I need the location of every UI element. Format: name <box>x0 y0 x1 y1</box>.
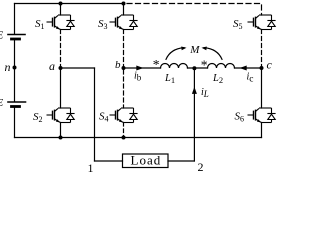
svg-text:1: 1 <box>88 161 94 175</box>
svg-text:iL: iL <box>201 87 209 99</box>
svg-text:S4: S4 <box>99 111 109 124</box>
svg-text:S1: S1 <box>35 18 45 31</box>
svg-text:S6: S6 <box>235 111 245 124</box>
svg-text:M: M <box>189 44 200 56</box>
op switch S5 <box>248 15 276 30</box>
junction dot top rail S3 <box>122 2 126 6</box>
arrow M right <box>202 47 207 51</box>
junction dot S2 bottom rail <box>59 136 63 140</box>
wire battery E1 to battery E2 <box>14 41 16 102</box>
node n dot <box>13 66 17 70</box>
svg-text:Load: Load <box>131 152 162 167</box>
battery E1 short plate <box>12 38 20 41</box>
svg-text:S3: S3 <box>98 18 108 31</box>
wire S4 emitter to bottom rail (dashed) <box>123 123 125 138</box>
svg-text:2: 2 <box>198 160 204 174</box>
wire S2 emitter to bottom rail <box>60 123 62 138</box>
wire S1 emitter to node a (dashed) <box>60 30 62 67</box>
mutual coupling arc right <box>204 48 222 60</box>
svg-text:b: b <box>115 59 121 71</box>
battery E2 short plate <box>12 105 20 108</box>
wire L1 to L2 through junction <box>188 67 208 69</box>
load box <box>123 154 169 168</box>
wire node c to S6 collector <box>261 68 263 108</box>
arrow M left <box>181 47 186 51</box>
op switch S4 <box>110 108 138 123</box>
svg-text:c: c <box>267 58 273 72</box>
svg-text:S5: S5 <box>233 18 243 31</box>
bottom rail riser to S6 <box>261 123 263 138</box>
wire terminal 1 vertical <box>94 68 96 161</box>
wire terminal 1 to load <box>95 160 123 162</box>
op switch S1 <box>47 15 75 30</box>
top rail dashed segment <box>124 4 262 16</box>
op switch S3 <box>110 15 138 30</box>
svg-text:L2: L2 <box>212 73 223 85</box>
svg-text:*: * <box>153 57 160 72</box>
inductor L1 coil <box>161 64 188 68</box>
wire S3 emitter to node b (dashed) <box>123 30 125 67</box>
wire S5 emitter to node c (dashed) <box>261 30 263 67</box>
junction dot top rail S1 <box>59 2 63 6</box>
op switch S6 <box>248 108 276 123</box>
node a dot <box>59 66 63 70</box>
svg-text:ib: ib <box>134 71 142 83</box>
left rail lower wire <box>14 108 16 138</box>
mutual coupling arc left <box>166 48 184 60</box>
wire S3 collector riser <box>123 4 125 16</box>
wire node b to L1 <box>124 67 161 69</box>
svg-text:n: n <box>5 60 11 74</box>
junction dot S4 bottom rail <box>122 136 126 140</box>
svg-text:a: a <box>49 59 55 73</box>
op switch S2 <box>47 108 75 123</box>
wire load to terminal 2 <box>168 160 194 162</box>
inductor L2 coil <box>208 64 235 68</box>
junction dot L1-L2 <box>192 66 196 70</box>
left rail upper wire <box>14 4 16 34</box>
wire S1 collector riser <box>60 4 62 16</box>
arrow i_c <box>240 66 247 71</box>
wire node a to terminal 1 corner <box>61 67 95 69</box>
arrow i_L <box>192 87 197 94</box>
svg-text:ic: ic <box>247 72 254 85</box>
svg-text:*: * <box>201 58 208 73</box>
wire node a to S2 collector <box>60 68 62 108</box>
arrow i_b <box>136 66 143 71</box>
wire terminal 2 vertical (iL) <box>193 68 195 161</box>
svg-text:S2: S2 <box>33 111 43 124</box>
bottom rail <box>15 137 262 139</box>
node c dot <box>260 66 264 70</box>
top rail solid segment <box>15 3 124 5</box>
svg-text:L1: L1 <box>164 73 175 85</box>
wire L2 to node c <box>235 67 262 69</box>
wire node b to S4 collector (dashed) <box>123 70 125 108</box>
node b dot <box>122 66 126 70</box>
svg-text:E: E <box>0 97 4 109</box>
battery E2 long plate <box>8 101 26 103</box>
battery E1 long plate <box>8 34 25 36</box>
svg-text:E: E <box>0 30 4 42</box>
